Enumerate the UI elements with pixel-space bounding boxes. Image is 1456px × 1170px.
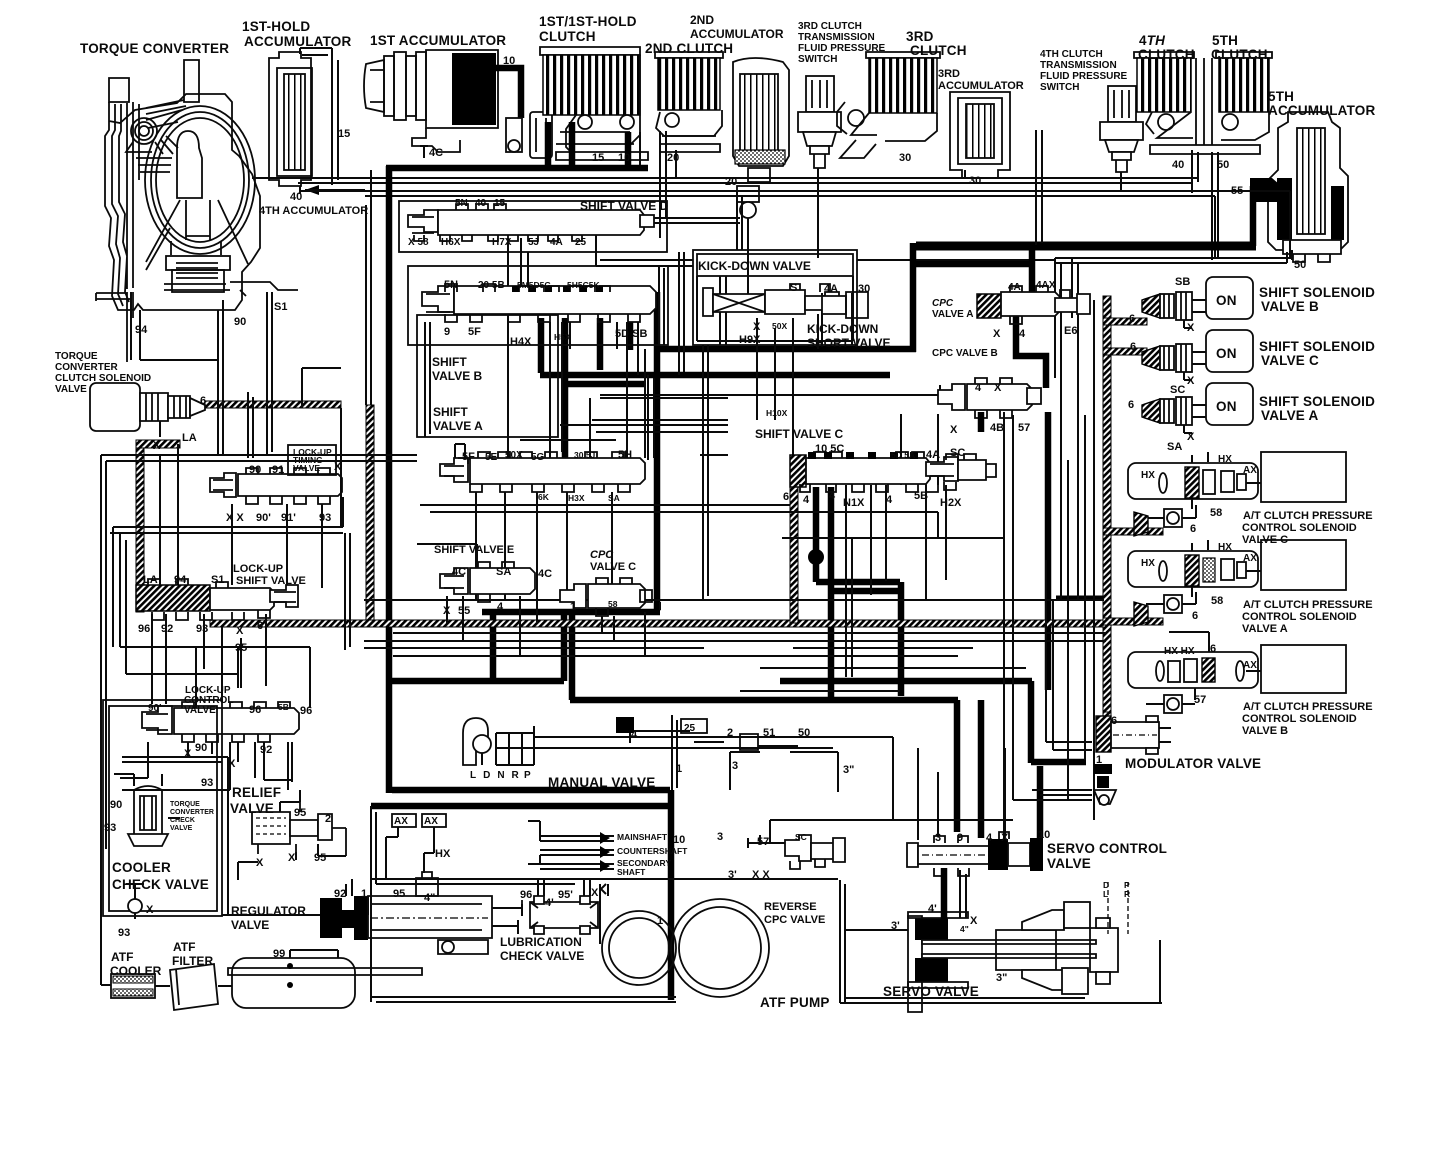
svg-text:96: 96: [249, 704, 261, 716]
ON box B: [1206, 277, 1253, 319]
svg-text:VALVE B: VALVE B: [432, 369, 483, 383]
svg-text:REVERSE: REVERSE: [764, 901, 817, 913]
shift valve B port blocks: [512, 286, 603, 292]
svg-text:CONVERTER: CONVERTER: [170, 809, 214, 816]
wire right column risers: [901, 262, 1094, 820]
wire lubrication risers: [538, 880, 608, 896]
svg-text:AX: AX: [1243, 553, 1257, 564]
svg-text:X: X: [1187, 431, 1195, 443]
ON box C: [1206, 330, 1253, 372]
shift valve C: [790, 452, 996, 492]
svg-text:KICK-DOWN: KICK-DOWN: [807, 322, 878, 336]
wire 50 horizontal to left: [1055, 250, 1292, 378]
manual valve 25 box: [681, 719, 707, 733]
svg-text:15: 15: [592, 152, 604, 164]
svg-text:99: 99: [273, 948, 285, 960]
svg-text:VALVE: VALVE: [184, 705, 216, 716]
svg-text:3": 3": [843, 764, 854, 776]
wire thick loop top right of shift valve C: [916, 242, 1256, 251]
svg-text:CHECK: CHECK: [170, 817, 195, 824]
svg-text:H10X: H10X: [766, 408, 788, 418]
svg-text:51: 51: [763, 727, 775, 739]
wire thick bus B y375: [540, 372, 890, 379]
check valve pair below 10: [506, 112, 552, 158]
svg-text:5M5D5G: 5M5D5G: [517, 280, 551, 290]
svg-text:9: 9: [444, 326, 450, 338]
mainshaft lines: [528, 821, 614, 872]
svg-text:4: 4: [631, 729, 638, 741]
svg-text:ACCUMULATOR: ACCUMULATOR: [1268, 103, 1375, 118]
svg-text:X 58: X 58: [408, 237, 429, 248]
svg-text:4: 4: [1019, 328, 1026, 340]
svg-text:SHIFT VALVE D: SHIFT VALVE D: [580, 199, 669, 213]
svg-text:X: X: [993, 328, 1001, 340]
svg-text:H6X: H6X: [441, 237, 461, 248]
hatched passage long bus y623: [210, 620, 1106, 627]
svg-text:SC: SC: [795, 832, 807, 842]
servo valve: [908, 868, 1128, 1012]
svg-text:SA: SA: [496, 566, 511, 578]
svg-text:93: 93: [196, 623, 208, 635]
wire mesh horizontals middle: [420, 398, 938, 512]
svg-text:AX: AX: [1243, 660, 1257, 671]
svg-text:4": 4": [960, 924, 969, 934]
shift valve C port blocks: [808, 452, 918, 459]
svg-text:MAINSHAFT: MAINSHAFT: [617, 832, 668, 842]
wire atf pump vertical: [599, 884, 601, 944]
svg-text:X: X: [153, 440, 161, 452]
svg-text:SHIFT VALVE E: SHIFT VALVE E: [434, 544, 514, 556]
wire thick servo control feeds: [957, 412, 1086, 838]
svg-text:10 5C: 10 5C: [815, 443, 844, 455]
svg-text:57: 57: [1194, 694, 1206, 706]
wire relief connections: [238, 790, 346, 880]
shift valve A: [440, 444, 645, 492]
svg-text:6: 6: [1190, 523, 1196, 535]
wire 50 long line from kick-down area: [600, 259, 1055, 261]
wire horizontals lock-up lower: [120, 647, 310, 704]
svg-text:SC: SC: [1170, 384, 1185, 396]
wire y395 bus: [600, 385, 940, 395]
hatched passage LA horizontal: [205, 401, 341, 408]
svg-text:1ST-HOLD: 1ST-HOLD: [242, 19, 310, 34]
svg-text:2ND CLUTCH: 2ND CLUTCH: [645, 41, 733, 56]
svg-text:X: X: [288, 852, 296, 864]
svg-text:6: 6: [200, 395, 206, 407]
svg-text:3RD: 3RD: [906, 29, 934, 44]
svg-text:5F: 5F: [462, 451, 475, 463]
5th accumulator: [1268, 112, 1348, 262]
svg-text:CPC VALVE: CPC VALVE: [764, 914, 825, 926]
svg-text:VALVE A: VALVE A: [932, 309, 973, 320]
svg-text:4: 4: [829, 490, 836, 502]
shift solenoid valve C symbol: [1142, 344, 1206, 380]
wire y512 y538: [782, 512, 1004, 538]
wire thick bus y680: [392, 612, 1032, 681]
svg-text:58: 58: [1211, 595, 1223, 607]
svg-text:VALVE B: VALVE B: [1242, 725, 1288, 737]
svg-text:VALVE: VALVE: [293, 463, 320, 473]
1st accumulator: [364, 50, 498, 158]
svg-text:SERVO CONTROL: SERVO CONTROL: [1047, 841, 1167, 856]
shift valve E: [440, 562, 535, 602]
svg-text:4TH CLUTCH: 4TH CLUTCH: [1040, 49, 1103, 60]
wire thick vert central x657: [654, 292, 661, 611]
svg-text:VALVE: VALVE: [170, 825, 193, 832]
wire right horizontals: [1013, 742, 1092, 800]
4th clutch: [1134, 52, 1194, 112]
shift valve D: [408, 204, 654, 241]
cpc valve B: [938, 378, 1041, 432]
wire thick vert 5G: [565, 318, 600, 462]
svg-text:FLUID PRESSURE: FLUID PRESSURE: [798, 43, 886, 54]
wire E6 verticals: [1036, 130, 1078, 318]
lock-up shift valve: [136, 579, 298, 620]
svg-text:SHIFT SOLENOID: SHIFT SOLENOID: [1259, 339, 1375, 354]
1st-hold accumulator: [269, 48, 338, 194]
atf filter: [170, 964, 232, 1010]
svg-text:SERVO VALVE: SERVO VALVE: [883, 984, 979, 999]
svg-text:4A: 4A: [926, 449, 940, 461]
svg-text:90: 90: [249, 464, 261, 476]
svg-text:REGULATOR: REGULATOR: [231, 904, 306, 918]
svg-text:5E: 5E: [485, 452, 498, 463]
wire thick 15-10 bus below clutches: [386, 122, 648, 170]
wire servo long lines: [893, 737, 1092, 840]
svg-text:ON: ON: [1216, 293, 1237, 308]
svg-text:CONTROL SOLENOID: CONTROL SOLENOID: [1242, 713, 1357, 725]
wire lock-up area verticals from torque converter: [131, 292, 272, 455]
svg-text:92: 92: [334, 888, 346, 900]
svg-text:93: 93: [319, 512, 331, 524]
svg-text:30: 30: [969, 175, 981, 187]
wire thick left main loop: [386, 166, 393, 793]
modulator valve lower check: [1094, 764, 1116, 805]
wire 40 bus torque converter to 4th clutch: [252, 150, 1198, 193]
svg-text:20: 20: [667, 152, 679, 164]
svg-text:RELIEF: RELIEF: [232, 785, 281, 800]
svg-text:5D 5A: 5D 5A: [891, 450, 915, 460]
modulator valve: [1096, 716, 1171, 754]
svg-text:3RD CLUTCH: 3RD CLUTCH: [798, 21, 862, 32]
svg-text:4C: 4C: [452, 566, 466, 578]
wire pair y456 to shift valve area: [101, 455, 417, 461]
svg-text:6: 6: [257, 620, 263, 632]
wire thick bus y700: [570, 614, 958, 700]
shift valve B: [422, 284, 656, 322]
svg-text:57: 57: [757, 836, 769, 848]
svg-text:4A: 4A: [1008, 282, 1021, 293]
svg-text:4": 4": [424, 892, 435, 904]
svg-text:KICK-DOWN VALVE: KICK-DOWN VALVE: [698, 259, 811, 273]
svg-text:50: 50: [1294, 259, 1306, 271]
3rd clutch: [837, 52, 940, 158]
wire mesh below shift valve A: [417, 492, 612, 623]
svg-text:5B: 5B: [914, 490, 928, 502]
svg-text:R: R: [1124, 889, 1130, 899]
svg-text:X: X: [236, 625, 244, 637]
svg-text:40: 40: [290, 191, 302, 203]
svg-text:CLUTCH SOLENOID: CLUTCH SOLENOID: [55, 373, 151, 384]
hatched passage LA vertical left: [136, 440, 180, 612]
wire extra density valve B region: [425, 322, 728, 460]
wire cooler region: [122, 757, 368, 915]
svg-text:SHIFT SOLENOID: SHIFT SOLENOID: [1259, 394, 1375, 409]
svg-text:4: 4: [975, 382, 982, 394]
wire mesh kick-down verticals: [703, 258, 818, 600]
svg-text:S1: S1: [211, 574, 224, 586]
svg-text:4AX: 4AX: [1036, 280, 1056, 291]
svg-text:ACCUMULATOR: ACCUMULATOR: [938, 80, 1024, 92]
svg-text:A/T CLUTCH PRESSURE: A/T CLUTCH PRESSURE: [1243, 510, 1373, 522]
svg-text:FLUID PRESSURE: FLUID PRESSURE: [1040, 71, 1128, 82]
svg-text:TORQUE: TORQUE: [55, 351, 98, 362]
wire servo area risers: [871, 485, 946, 595]
hatched passage LA vertical right: [366, 405, 374, 623]
svg-text:SHIFT: SHIFT: [433, 405, 468, 419]
svg-text:90: 90: [110, 799, 122, 811]
svg-text:55: 55: [1231, 185, 1243, 197]
wire 40 arrow: [305, 185, 319, 195]
shift valve B box: [408, 266, 668, 345]
wire kick-down inner verticals: [720, 276, 852, 345]
svg-text:6: 6: [783, 491, 789, 503]
svg-text:TORQUE: TORQUE: [170, 801, 200, 808]
svg-text:VALVE: VALVE: [230, 801, 274, 816]
svg-text:58: 58: [1210, 507, 1222, 519]
svg-text:SHIFT VALVE: SHIFT VALVE: [236, 575, 306, 587]
wire thin pair mid: [737, 190, 900, 691]
svg-text:H4X: H4X: [510, 336, 532, 348]
svg-text:MANUAL VALVE: MANUAL VALVE: [548, 775, 655, 790]
svg-text:10: 10: [1038, 829, 1050, 841]
svg-text:VALVE A: VALVE A: [433, 419, 483, 433]
svg-text:3: 3: [717, 831, 723, 843]
svg-text:CONVERTER: CONVERTER: [55, 362, 119, 373]
svg-text:SHIFT SOLENOID: SHIFT SOLENOID: [1259, 285, 1375, 300]
svg-text:H3X: H3X: [568, 493, 585, 503]
svg-text:X: X: [443, 605, 451, 617]
wire 15 bus main horizontal pair: [300, 191, 1290, 258]
svg-text:40: 40: [1172, 159, 1184, 171]
svg-text:CONTROL SOLENOID: CONTROL SOLENOID: [1242, 522, 1357, 534]
hatched element row C: [1134, 512, 1148, 536]
svg-text:10: 10: [618, 152, 630, 164]
svg-text:5H5C5K: 5H5C5K: [567, 280, 600, 290]
4th clutch transmission fluid pressure switch: [1100, 86, 1143, 192]
kick-down short valve: [822, 292, 868, 318]
svg-text:5F: 5F: [468, 326, 481, 338]
svg-text:1: 1: [361, 888, 367, 900]
svg-text:X X: X X: [226, 512, 244, 524]
svg-text:90': 90': [148, 703, 162, 714]
hatched passage shift valve C left: [790, 487, 798, 623]
svg-text:COOLER: COOLER: [112, 860, 171, 875]
wire 55 thick elbow to 5th accumulator: [1250, 178, 1286, 202]
svg-text:S: S: [790, 282, 797, 294]
svg-text:6: 6: [1130, 341, 1136, 353]
torque converter check valve: [114, 774, 180, 846]
svg-text:94: 94: [174, 574, 187, 586]
lubrication check valve: [530, 880, 606, 934]
reverse cpc valve: [748, 835, 908, 930]
atf pump circles: [602, 899, 769, 997]
svg-text:SWITCH: SWITCH: [1040, 82, 1079, 93]
svg-text:3: 3: [732, 760, 738, 772]
svg-text:X: X: [1187, 322, 1195, 334]
svg-text:94: 94: [135, 324, 148, 336]
svg-text:5N: 5N: [444, 279, 458, 291]
svg-text:X: X: [334, 461, 342, 473]
svg-text:96: 96: [138, 623, 150, 635]
wire lock-up control connections: [110, 497, 350, 650]
svg-text:96: 96: [300, 705, 312, 717]
manual valve spool: [534, 731, 814, 750]
svg-text:A/T CLUTCH PRESSURE: A/T CLUTCH PRESSURE: [1243, 701, 1373, 713]
svg-text:4': 4': [545, 897, 554, 909]
svg-text:TRANSMISSION: TRANSMISSION: [798, 32, 875, 43]
svg-text:95': 95': [558, 889, 573, 901]
svg-text:CPC: CPC: [590, 549, 614, 561]
svg-text:3': 3': [891, 920, 900, 932]
manual valve right box outline: [672, 715, 838, 792]
svg-text:57: 57: [1018, 422, 1030, 434]
svg-text:CPC VALVE B: CPC VALVE B: [932, 348, 998, 359]
svg-text:X: X: [256, 857, 264, 869]
svg-text:VALVE A: VALVE A: [1261, 408, 1318, 423]
svg-text:SWITCH: SWITCH: [798, 54, 837, 65]
svg-text:50: 50: [798, 727, 810, 739]
svg-text:1: 1: [570, 601, 576, 613]
svg-text:LA: LA: [143, 574, 158, 586]
shift solenoid valve B symbol: [1142, 292, 1206, 328]
svg-text:LDNR: LDNR: [470, 770, 526, 781]
svg-text:N1X: N1X: [843, 497, 865, 509]
svg-text:50X: 50X: [505, 450, 523, 461]
AX boxed labels: [386, 814, 446, 879]
wire thick manual valve box: [392, 787, 670, 794]
svg-text:TORQUE CONVERTER: TORQUE CONVERTER: [80, 41, 229, 56]
wire manual valve internals to right: [533, 737, 893, 748]
svg-text:5TH: 5TH: [1268, 89, 1294, 104]
svg-text:TRANSMISSION: TRANSMISSION: [1040, 60, 1117, 71]
svg-text:6: 6: [1210, 643, 1216, 655]
svg-text:15: 15: [338, 128, 350, 140]
wire right long verticals: [770, 412, 1013, 842]
svg-text:SHORT VALVE: SHORT VALVE: [807, 336, 891, 350]
svg-text:55: 55: [458, 605, 470, 617]
check ball 57 row B: [1146, 695, 1195, 713]
svg-text:VALVE: VALVE: [1047, 856, 1091, 871]
manual valve detent: [463, 718, 491, 765]
a/t CPC valve A coil box: [1261, 540, 1346, 590]
wire verticals kick-down region: [659, 252, 793, 455]
wire thick vert H4X: [538, 318, 545, 373]
svg-text:91: 91: [272, 464, 284, 476]
svg-text:ON: ON: [1216, 346, 1237, 361]
svg-text:5TH: 5TH: [1212, 33, 1238, 48]
check ball 58 row A: [1146, 592, 1196, 613]
wire thick bus A y349: [655, 346, 916, 353]
svg-text:AX: AX: [1243, 465, 1257, 476]
svg-text:1ST ACCUMULATOR: 1ST ACCUMULATOR: [370, 33, 506, 48]
svg-text:ATF: ATF: [111, 950, 133, 964]
svg-text:VALVE A: VALVE A: [1242, 623, 1288, 635]
svg-text:4C: 4C: [429, 147, 443, 159]
svg-text:CPC: CPC: [932, 298, 954, 309]
svg-text:4C: 4C: [538, 568, 552, 580]
svg-text:93: 93: [201, 777, 213, 789]
svg-text:ACCUMULATOR: ACCUMULATOR: [244, 34, 351, 49]
shift valve D box: [399, 201, 667, 252]
svg-text:9: 9: [957, 832, 963, 844]
svg-text:20: 20: [725, 176, 737, 188]
svg-text:AX: AX: [394, 816, 408, 827]
5th clutch: [1146, 52, 1272, 154]
svg-text:95: 95: [393, 888, 405, 900]
svg-text:90: 90: [195, 742, 207, 754]
svg-text:X: X: [753, 321, 761, 333]
svg-text:95: 95: [314, 852, 326, 864]
svg-text:5G: 5G: [531, 452, 545, 463]
svg-text:6: 6: [1111, 715, 1117, 727]
svg-text:30: 30: [858, 283, 870, 295]
wire 10 from 1st accumulator: [496, 68, 521, 118]
svg-text:10: 10: [673, 834, 685, 846]
cpc valve A: [977, 286, 1090, 324]
svg-text:X: X: [228, 758, 236, 770]
wire thick CPC A to CPC B: [1016, 314, 1046, 388]
svg-text:1: 1: [676, 763, 682, 775]
svg-text:2: 2: [727, 727, 733, 739]
wire left tall pair: [366, 170, 371, 405]
svg-text:20 5B: 20 5B: [478, 280, 505, 291]
svg-text:25: 25: [575, 237, 587, 248]
svg-text:4: 4: [886, 494, 893, 506]
cpc valve C: [560, 578, 652, 616]
svg-text:FILTER: FILTER: [172, 954, 213, 968]
2nd clutch: [655, 52, 723, 152]
svg-text:X: X: [591, 887, 599, 899]
2nd accumulator: [733, 58, 789, 258]
wire 30 from 3rd switch to 3rd accumulator: [818, 170, 965, 178]
wire 50 from 5th clutch shaft down: [1212, 152, 1218, 260]
regulator valve: [320, 872, 522, 954]
lock-up control valve: [142, 702, 299, 782]
svg-text:4TH: 4TH: [1139, 33, 1165, 48]
kick-down valve: [703, 284, 839, 316]
wire servo control risers2: [938, 748, 1005, 836]
svg-text:VALVE: VALVE: [55, 384, 87, 395]
svg-text:ACCUMULATOR: ACCUMULATOR: [690, 27, 784, 41]
svg-text:AX: AX: [424, 816, 438, 827]
svg-text:CHECK VALVE: CHECK VALVE: [112, 877, 209, 892]
a/t clutch pressure control solenoid valve A body: [1128, 540, 1258, 597]
svg-text:4TH ACCUMULATOR: 4TH ACCUMULATOR: [259, 205, 368, 217]
svg-text:VALVE C: VALVE C: [1261, 353, 1319, 368]
cooler check valve symbol: [126, 884, 144, 919]
svg-text:50: 50: [1217, 159, 1229, 171]
svg-text:X: X: [950, 424, 958, 436]
svg-text:95: 95: [235, 642, 247, 654]
svg-text:CLUTCH: CLUTCH: [539, 29, 596, 44]
svg-text:90': 90': [256, 512, 271, 524]
wire lock-up control outputs: [120, 742, 288, 790]
svg-text:4': 4': [928, 903, 937, 915]
svg-text:HX: HX: [1218, 542, 1232, 553]
svg-text:SC: SC: [950, 447, 965, 459]
svg-text:VALVE C: VALVE C: [590, 561, 636, 573]
